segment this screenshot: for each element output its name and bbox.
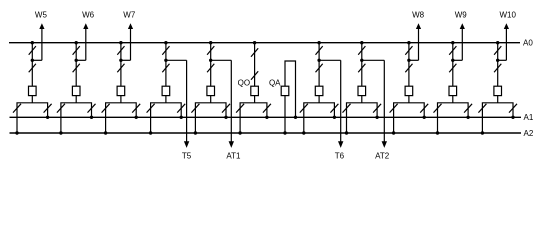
wire W5 fuse to switch cell box	[31, 96, 33, 103]
wire tap from AT1 branch to outgoing line	[211, 59, 232, 61]
switch cell box W9	[438, 103, 469, 118]
junction dot box W9 on bus A1	[466, 116, 469, 119]
wire box T5 left edge down to bus A2	[150, 117, 152, 133]
disconnector switch tick 2 on W9 branch	[449, 64, 456, 73]
junction dot box W5 on bus A1	[46, 116, 49, 119]
junction dot box W5 on bus A2	[15, 131, 18, 134]
svg-text:W7: W7	[123, 11, 136, 20]
switch tick on right edge of box W6	[88, 104, 96, 113]
switch tick on left edge of box T5	[147, 104, 155, 113]
junction tap node on W9 branch	[451, 59, 454, 62]
disconnector switch tick 1 on W9 branch	[449, 46, 456, 55]
wire W8 fuse to switch cell box	[408, 96, 410, 103]
wire tap from T5 branch to outgoing line	[166, 59, 187, 61]
fuse T5 (square)	[162, 86, 170, 95]
wire outgoing transformer feed line T5 (crosses buses A1, A2)	[186, 60, 188, 142]
arrowhead feeder W9	[460, 23, 465, 29]
switch tick on right edge of box W7	[132, 104, 140, 113]
switch cell box QO	[240, 103, 267, 118]
switch tick on left edge of box W6	[57, 104, 65, 113]
fuse AT2 (square)	[358, 86, 366, 95]
switch tick on left edge of box T6	[300, 104, 308, 113]
fuse AT1 (square)	[207, 86, 215, 95]
wire box W9 left edge down to bus A2	[437, 117, 439, 133]
switch cell box T5	[151, 103, 182, 118]
switch tick on right edge of box QO	[263, 104, 271, 113]
fuse W9 (square)	[449, 86, 457, 95]
wire tap from W5 branch to outgoing line	[32, 59, 42, 61]
junction dot QA link on bus A2	[283, 131, 286, 134]
switch tick on left edge of box W9	[434, 104, 442, 113]
node W9 on bus A0 (junction dot)	[451, 41, 454, 44]
switch cell box AT2	[347, 103, 378, 118]
wire tap from W7 branch to outgoing line	[121, 59, 131, 61]
fuse W7 (square)	[117, 86, 125, 95]
wire QA jumper up-over (inverted U) to bus A1	[285, 61, 296, 117]
junction tap node on W5 branch	[31, 59, 34, 62]
junction dot box QO on bus A1	[265, 116, 268, 119]
fuse W8 (square)	[405, 86, 413, 95]
switch tick on right edge of box T6	[330, 104, 338, 113]
wire outgoing feeder line W7 (crosses bus A0)	[130, 28, 132, 60]
switch tick on right edge of box W9	[464, 104, 472, 113]
junction dot box W6 on bus A1	[90, 116, 93, 119]
wire box W10 left edge down to bus A2	[481, 117, 483, 133]
svg-text:W10: W10	[499, 11, 516, 20]
node AT2 on bus A0 (junction dot)	[360, 41, 363, 44]
wire W9 fuse to switch cell box	[452, 96, 454, 103]
arrowhead feeder W5	[39, 23, 44, 29]
switch tick on left edge of box W5	[13, 104, 21, 113]
junction dot box AT1 on bus A1	[224, 116, 227, 119]
switch tick on right edge of box W5	[44, 104, 52, 113]
switch cell box T6	[304, 103, 335, 118]
disconnector switch tick 2 on W7 branch	[117, 64, 124, 73]
disconnector switch tick 1 on T6 branch	[316, 46, 323, 55]
arrowhead transformer feed AT1	[229, 141, 234, 148]
junction dot box AT2 on bus A1	[375, 116, 378, 119]
node T5 on bus A0 (junction dot)	[164, 41, 167, 44]
svg-text:A2: A2	[524, 129, 534, 138]
junction dot box W7 on bus A2	[104, 131, 107, 134]
switch tick on right edge of box AT1	[222, 104, 230, 113]
junction tap node on T5 branch	[164, 59, 167, 62]
wire QO fuse to switch cell box	[254, 96, 256, 103]
wire W9 branch drop from A0	[452, 43, 454, 86]
wire box W8 left edge down to bus A2	[393, 117, 395, 133]
disconnector switch tick 1 on W6 branch	[73, 46, 80, 55]
wire outgoing transformer feed line AT1 (crosses buses A1, A2)	[230, 60, 232, 142]
switch tick on left edge of box W7	[102, 104, 110, 113]
wire box W5 left edge down to bus A2	[16, 117, 18, 133]
junction dot box T5 on bus A2	[149, 131, 152, 134]
wire T6 branch drop from A0	[318, 43, 320, 86]
wire AT1 fuse to switch cell box	[210, 96, 212, 103]
svg-text:A0: A0	[523, 38, 533, 47]
svg-text:W6: W6	[82, 11, 95, 20]
disconnector switch tick 2 on AT2 branch	[358, 64, 365, 73]
junction tap node on AT1 branch	[209, 59, 212, 62]
fuse W6 (square)	[72, 86, 80, 95]
wire W6 branch drop from A0	[75, 43, 77, 86]
disconnector switch tick 1 on QO branch	[251, 48, 258, 57]
junction dot box W10 on bus A1	[511, 116, 514, 119]
wire outgoing feeder line W10 (crosses bus A0)	[505, 28, 507, 60]
switch tick on right edge of box W8	[420, 104, 428, 113]
fuse T6 (square)	[315, 86, 323, 95]
wire tap from AT2 branch to outgoing line	[362, 59, 385, 61]
node W10 on bus A0 (junction dot)	[496, 41, 499, 44]
junction dot box W10 on bus A2	[481, 131, 484, 134]
switch tick on left edge of box AT2	[343, 104, 351, 113]
switch cell box W10	[482, 103, 513, 118]
wire outgoing feeder line W6 (crosses bus A0)	[85, 28, 87, 60]
svg-text:T5: T5	[182, 152, 192, 161]
junction tap node on W6 branch	[75, 59, 78, 62]
bus A2	[10, 132, 522, 134]
wire tap from W10 branch to outgoing line	[498, 59, 507, 61]
junction dot box W9 on bus A2	[436, 131, 439, 134]
svg-text:AT2: AT2	[375, 152, 390, 161]
wire box W7 left edge down to bus A2	[105, 117, 107, 133]
svg-text:W9: W9	[455, 11, 468, 20]
disconnector switch tick 2 on W6 branch	[73, 64, 80, 73]
arrowhead feeder W8	[416, 23, 421, 29]
wire W10 fuse to switch cell box	[497, 96, 499, 103]
switch tick on right edge of box AT2	[373, 104, 381, 113]
wire AT2 fuse to switch cell box	[361, 96, 363, 103]
wire AT1 branch drop from A0	[210, 43, 212, 86]
disconnector switch tick 1 on AT2 branch	[358, 46, 365, 55]
wire AT2 branch drop from A0	[361, 43, 363, 86]
arrowhead transformer feed T6	[338, 141, 343, 148]
fuse QA (square)	[281, 86, 289, 95]
node W5 on bus A0 (junction dot)	[31, 41, 34, 44]
disconnector switch tick 2 on W8 branch	[405, 64, 412, 73]
svg-text:QO: QO	[238, 78, 250, 87]
wire T5 fuse to switch cell box	[165, 96, 167, 103]
fuse W5 (square)	[29, 86, 37, 95]
switch tick on left edge of box W10	[478, 104, 486, 113]
arrowhead feeder W7	[128, 23, 133, 29]
junction dot box AT2 on bus A2	[345, 131, 348, 134]
junction dot box W8 on bus A2	[392, 131, 395, 134]
wire box W6 left edge down to bus A2	[60, 117, 62, 133]
switch cell box W8	[394, 103, 425, 118]
junction tap node on W10 branch	[496, 59, 499, 62]
junction dot box T5 on bus A1	[180, 116, 183, 119]
disconnector switch tick 2 on T6 branch	[316, 64, 323, 73]
junction tap node on W7 branch	[119, 59, 122, 62]
node W6 on bus A0 (junction dot)	[75, 41, 78, 44]
svg-text:AT1: AT1	[226, 152, 241, 161]
switch tick on left edge of box W8	[390, 104, 398, 113]
wire W8 branch drop from A0	[408, 43, 410, 86]
wire outgoing feeder line W5 (crosses bus A0)	[41, 28, 43, 60]
disconnector switch tick 1 on AT1 branch	[207, 46, 214, 55]
node T6 on bus A0 (junction dot)	[317, 41, 320, 44]
node QO on bus A0 (junction dot)	[253, 41, 256, 44]
switch tick on left edge of box QO	[236, 104, 244, 113]
node AT1 on bus A0 (junction dot)	[209, 41, 212, 44]
fuse W10 (square)	[494, 86, 502, 95]
svg-text:W5: W5	[35, 11, 48, 20]
junction dot box W8 on bus A1	[423, 116, 426, 119]
switch cell box W7	[106, 103, 137, 118]
disconnector switch tick 1 on W10 branch	[494, 46, 501, 55]
disconnector switch tick 2 on W5 branch	[29, 64, 36, 73]
disconnector switch tick 2 on QO branch	[251, 71, 258, 80]
wire tap from W6 branch to outgoing line	[76, 59, 86, 61]
switch cell box AT1	[195, 103, 226, 118]
switch tick on right edge of box T5	[177, 104, 185, 113]
wire W6 fuse to switch cell box	[75, 96, 77, 103]
disconnector switch tick 1 on W8 branch	[405, 46, 412, 55]
switch cell box W6	[61, 103, 92, 118]
disconnector switch tick 2 on T5 branch	[162, 64, 169, 73]
wire tap from W8 branch to outgoing line	[409, 59, 419, 61]
wire W5 branch drop from A0	[31, 43, 33, 86]
wire W10 branch drop from A0	[497, 43, 499, 86]
svg-text:A1: A1	[524, 113, 534, 122]
disconnector switch tick 2 on W10 branch	[494, 64, 501, 73]
wire tap from W9 branch to outgoing line	[453, 59, 463, 61]
switch tick on right edge of box W10	[509, 104, 517, 113]
switch tick on left edge of box AT1	[191, 104, 199, 113]
bus A1	[10, 116, 522, 118]
wire outgoing feeder line W8 (crosses bus A0)	[418, 28, 420, 60]
junction dot box T6 on bus A1	[333, 116, 336, 119]
wire box T6 left edge down to bus A2	[303, 117, 305, 133]
wire outgoing transformer feed line AT2 (crosses buses A1, A2)	[383, 60, 385, 142]
arrowhead feeder W10	[504, 23, 509, 29]
wire W7 fuse to switch cell box	[120, 96, 122, 103]
junction dot box W6 on bus A2	[59, 131, 62, 134]
switch cell box W5	[17, 103, 48, 118]
disconnector switch tick 1 on T5 branch	[162, 46, 169, 55]
arrowhead transformer feed T5	[184, 141, 189, 148]
wire tap from T6 branch to outgoing line	[319, 59, 341, 61]
disconnector switch tick 2 on AT1 branch	[207, 64, 214, 73]
node W8 on bus A0 (junction dot)	[407, 41, 410, 44]
junction tap node on AT2 branch	[360, 59, 363, 62]
arrowhead transformer feed AT2	[382, 141, 387, 148]
disconnector switch tick 1 on W7 branch	[117, 46, 124, 55]
wire outgoing feeder line W9 (crosses bus A0)	[461, 28, 463, 60]
arrowhead feeder W6	[83, 23, 88, 29]
wire T6 fuse to switch cell box	[318, 96, 320, 103]
junction dot box W7 on bus A1	[135, 116, 138, 119]
junction dot box AT1 on bus A2	[194, 131, 197, 134]
junction tap node on W8 branch	[407, 59, 410, 62]
junction dot box T6 on bus A2	[302, 131, 305, 134]
svg-text:W8: W8	[412, 11, 425, 20]
fuse QO (square)	[251, 86, 259, 95]
junction dot box QO on bus A2	[238, 131, 241, 134]
wire W7 branch drop from A0	[120, 43, 122, 86]
wire QO branch drop from A0	[254, 43, 256, 86]
junction tap node on T6 branch	[317, 59, 320, 62]
bus A0	[9, 42, 520, 44]
wire box AT1 left edge down to bus A2	[194, 117, 196, 133]
node W7 on bus A0 (junction dot)	[119, 41, 122, 44]
wire QA fuse down to bus A2	[284, 96, 286, 133]
svg-text:QA: QA	[269, 78, 281, 87]
wire box QO left edge down to bus A2	[239, 117, 241, 133]
disconnector switch tick 1 on W5 branch	[29, 46, 36, 55]
wire box AT2 left edge down to bus A2	[346, 117, 348, 133]
wire outgoing transformer feed line T6 (crosses buses A1, A2)	[340, 60, 342, 142]
junction dot QA link on bus A1	[294, 116, 297, 119]
wire T5 branch drop from A0	[165, 43, 167, 86]
svg-text:T6: T6	[335, 152, 345, 161]
